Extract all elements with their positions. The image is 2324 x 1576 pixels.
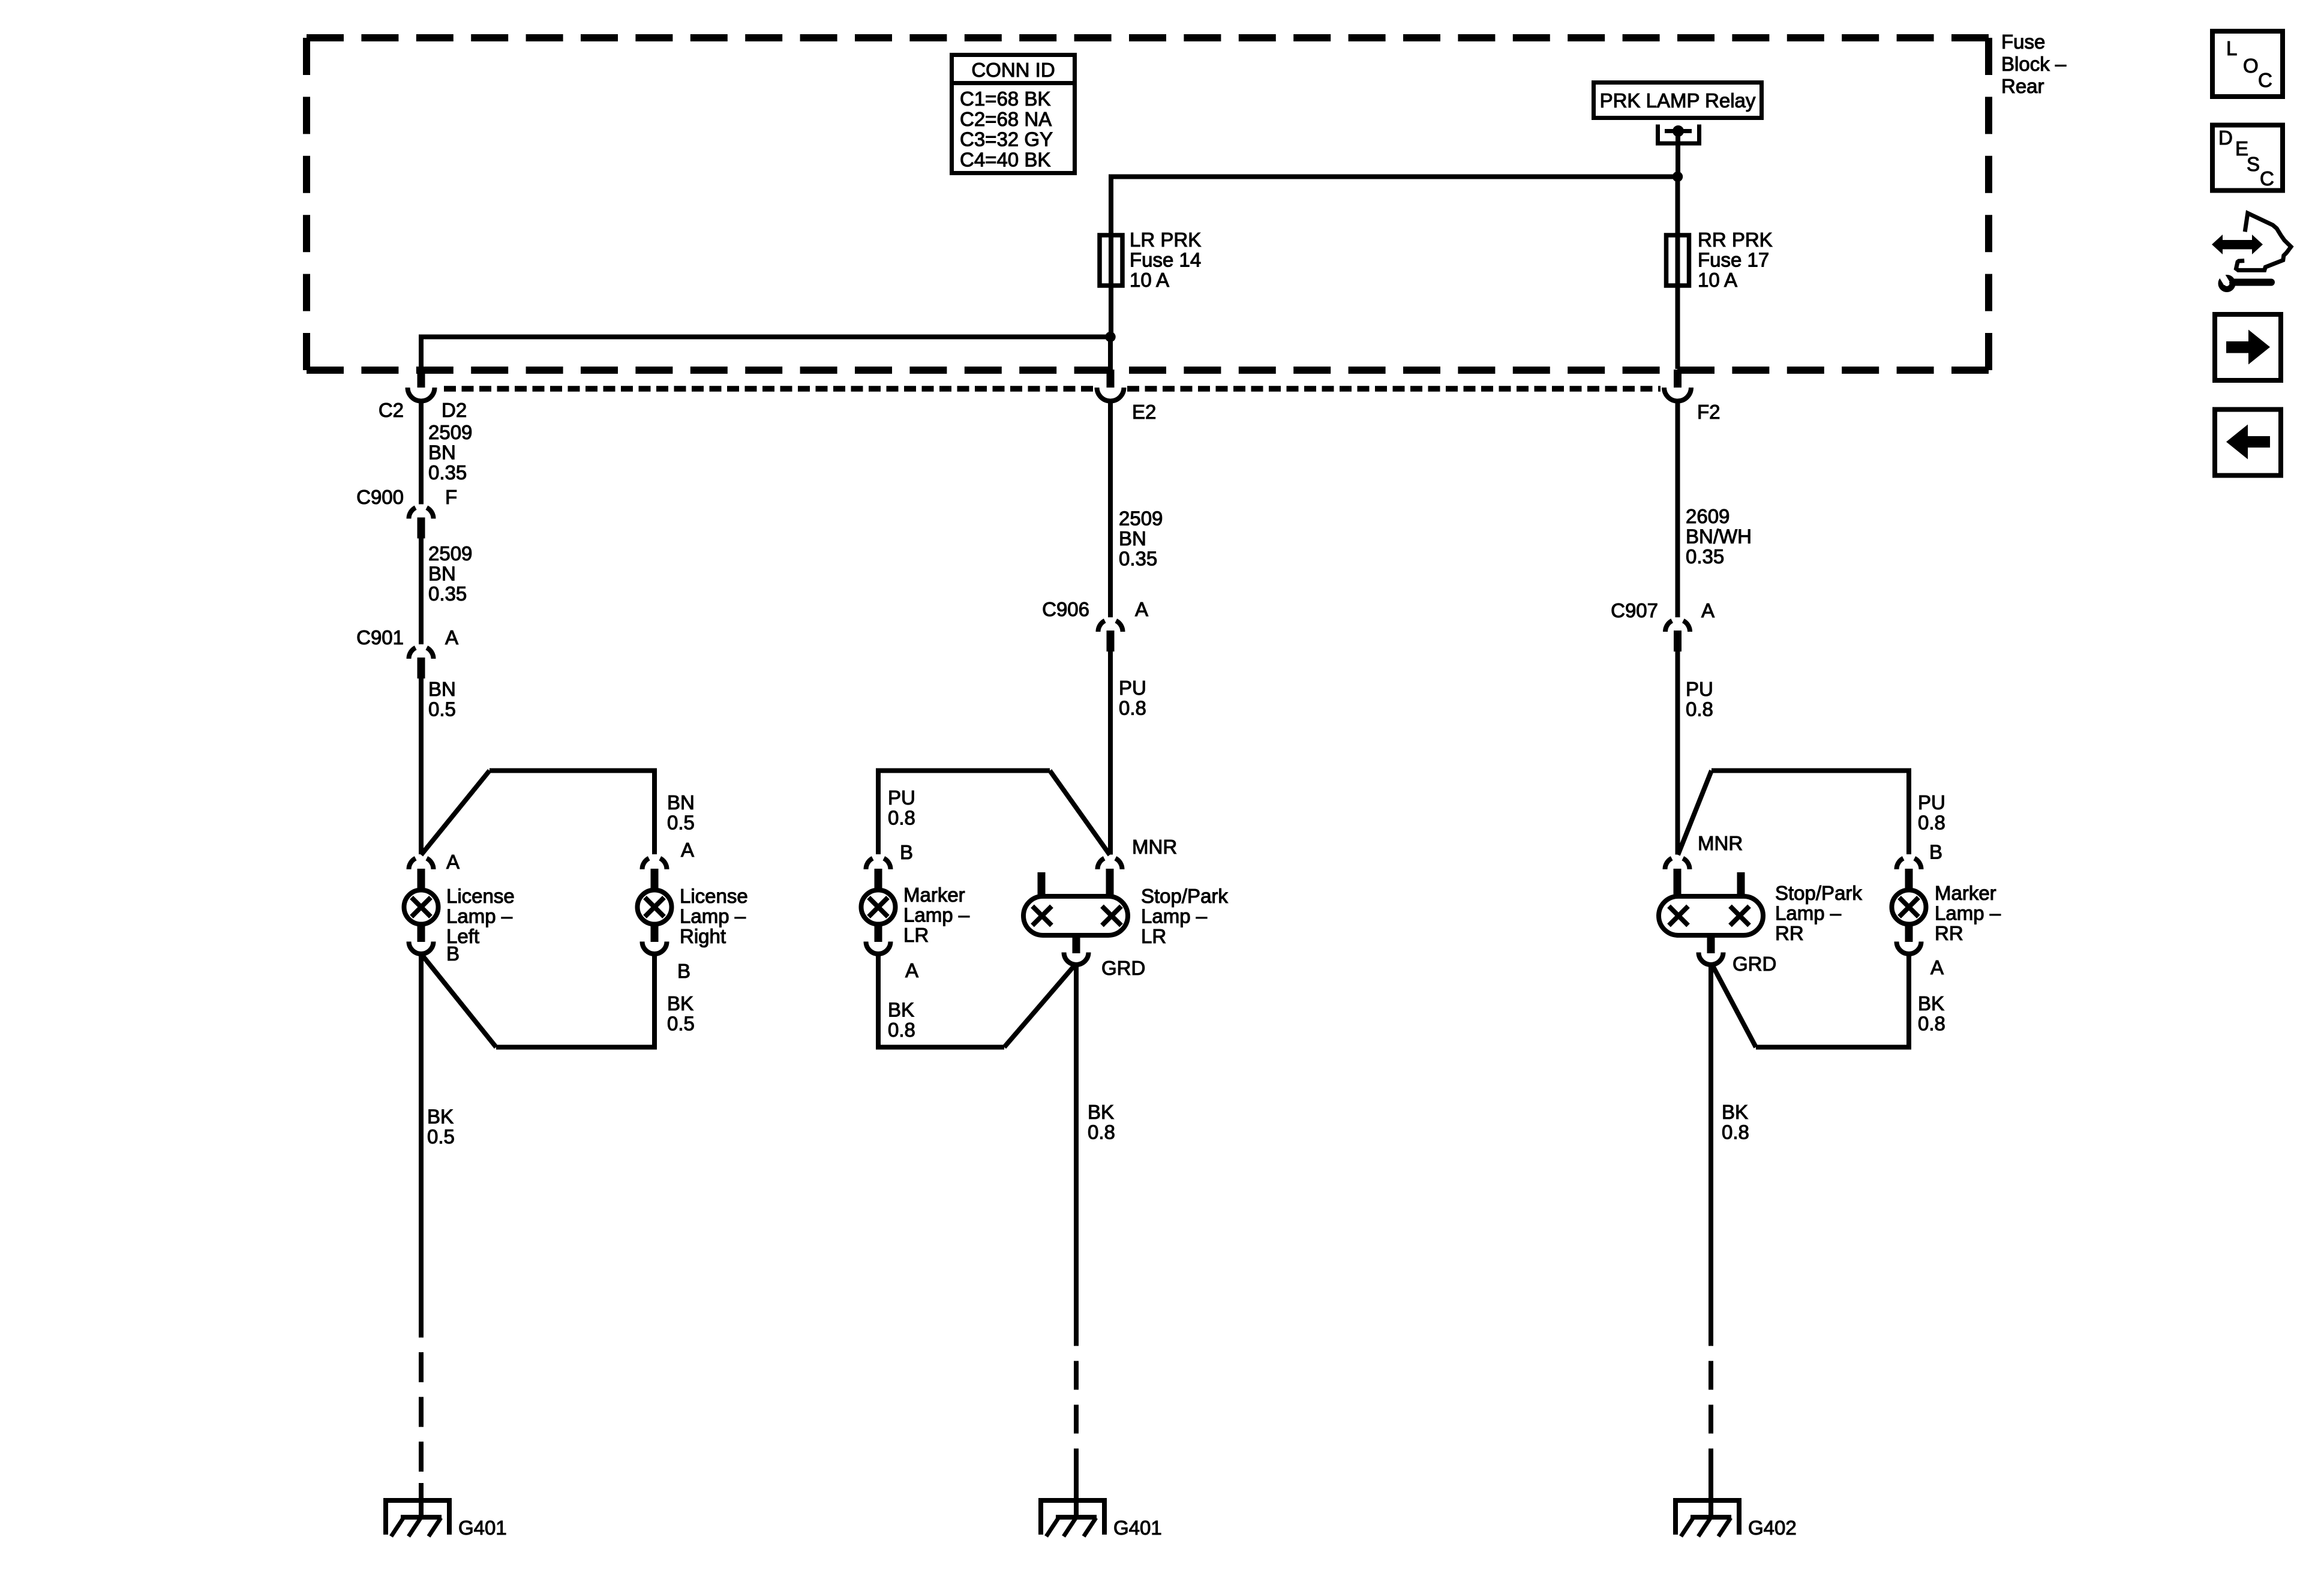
- svg-text:0.5: 0.5: [427, 1125, 455, 1148]
- svg-text:C900: C900: [356, 486, 404, 508]
- svg-text:BN: BN: [428, 678, 456, 700]
- svg-text:Lamp –: Lamp –: [1141, 905, 1208, 927]
- svg-text:0.8: 0.8: [1088, 1121, 1115, 1143]
- svg-text:Stop/Park: Stop/Park: [1141, 885, 1228, 907]
- svg-text:2609: 2609: [1686, 505, 1730, 527]
- svg-text:BN: BN: [667, 791, 695, 813]
- svg-text:A: A: [1930, 956, 1944, 978]
- svg-text:LR: LR: [903, 924, 929, 946]
- svg-text:RR PRK: RR PRK: [1698, 229, 1773, 251]
- svg-text:0.35: 0.35: [428, 461, 467, 484]
- svg-text:Block –: Block –: [2001, 53, 2067, 75]
- svg-text:C2=68 NA: C2=68 NA: [960, 108, 1052, 130]
- svg-text:RR: RR: [1775, 922, 1804, 944]
- svg-text:L: L: [2226, 37, 2237, 59]
- svg-text:PU: PU: [888, 787, 915, 809]
- svg-text:0.8: 0.8: [1918, 1013, 1945, 1035]
- svg-text:0.8: 0.8: [888, 1019, 915, 1041]
- svg-text:BK: BK: [1088, 1101, 1114, 1123]
- svg-text:10 A: 10 A: [1698, 269, 1737, 291]
- svg-text:C906: C906: [1042, 598, 1089, 620]
- svg-text:CONN ID: CONN ID: [971, 59, 1055, 81]
- svg-text:MNR: MNR: [1132, 836, 1177, 858]
- svg-text:C1=68 BK: C1=68 BK: [960, 88, 1050, 110]
- svg-text:C4=40 BK: C4=40 BK: [960, 148, 1050, 170]
- svg-text:BN: BN: [1119, 527, 1146, 550]
- svg-text:S: S: [2247, 153, 2260, 175]
- svg-text:LR PRK: LR PRK: [1130, 229, 1201, 251]
- svg-text:B: B: [1929, 841, 1942, 863]
- svg-text:Marker: Marker: [903, 884, 965, 906]
- svg-text:0.8: 0.8: [1119, 697, 1146, 719]
- svg-text:C2: C2: [379, 399, 404, 421]
- svg-text:Right: Right: [680, 925, 726, 947]
- svg-text:C: C: [2258, 69, 2272, 91]
- svg-text:A: A: [446, 851, 460, 873]
- svg-text:Lamp –: Lamp –: [903, 904, 970, 926]
- svg-text:2509: 2509: [428, 542, 472, 565]
- svg-text:Fuse: Fuse: [2001, 31, 2045, 53]
- svg-text:BK: BK: [667, 992, 693, 1014]
- svg-text:2509: 2509: [1119, 508, 1163, 530]
- svg-text:C901: C901: [356, 626, 404, 649]
- svg-text:B: B: [446, 942, 460, 965]
- svg-text:Lamp –: Lamp –: [680, 905, 746, 927]
- svg-text:BN: BN: [428, 563, 456, 585]
- svg-text:0.8: 0.8: [1686, 698, 1713, 721]
- svg-text:D: D: [2218, 127, 2233, 149]
- svg-text:PU: PU: [1918, 791, 1945, 813]
- svg-text:Lamp –: Lamp –: [1935, 902, 2001, 924]
- svg-text:0.5: 0.5: [428, 698, 456, 721]
- svg-text:0.5: 0.5: [667, 812, 695, 834]
- svg-text:PRK LAMP Relay: PRK LAMP Relay: [1600, 89, 1756, 112]
- svg-text:A: A: [445, 626, 458, 649]
- svg-text:F2: F2: [1697, 401, 1721, 423]
- svg-text:Fuse 17: Fuse 17: [1698, 249, 1769, 271]
- svg-text:A: A: [1701, 599, 1715, 622]
- svg-text:Stop/Park: Stop/Park: [1775, 882, 1862, 904]
- svg-text:BK: BK: [1918, 992, 1944, 1014]
- svg-text:LR: LR: [1141, 925, 1166, 947]
- svg-text:E2: E2: [1132, 401, 1156, 423]
- svg-text:2509: 2509: [428, 421, 472, 443]
- svg-text:0.35: 0.35: [1686, 545, 1724, 568]
- svg-text:PU: PU: [1119, 677, 1146, 699]
- svg-text:0.35: 0.35: [428, 583, 467, 605]
- svg-text:BN/WH: BN/WH: [1686, 526, 1752, 548]
- svg-text:A: A: [681, 839, 694, 861]
- svg-text:C: C: [2260, 167, 2274, 190]
- svg-text:BK: BK: [427, 1106, 454, 1128]
- svg-text:G401: G401: [1113, 1517, 1162, 1539]
- svg-text:0.5: 0.5: [667, 1013, 695, 1035]
- svg-text:RR: RR: [1935, 922, 1963, 944]
- svg-text:A: A: [1135, 598, 1148, 620]
- svg-text:License: License: [446, 885, 515, 907]
- svg-text:10 A: 10 A: [1130, 269, 1169, 291]
- svg-text:MNR: MNR: [1698, 832, 1743, 854]
- svg-text:G402: G402: [1748, 1517, 1797, 1539]
- svg-text:GRD: GRD: [1101, 957, 1145, 979]
- svg-text:B: B: [900, 841, 913, 863]
- svg-text:C907: C907: [1611, 599, 1658, 622]
- svg-text:G401: G401: [458, 1517, 507, 1539]
- svg-text:0.8: 0.8: [1722, 1121, 1749, 1143]
- svg-text:Lamp –: Lamp –: [1775, 902, 1842, 924]
- svg-text:Marker: Marker: [1935, 882, 1996, 904]
- svg-text:GRD: GRD: [1733, 953, 1776, 975]
- svg-text:Rear: Rear: [2001, 75, 2044, 97]
- svg-text:BK: BK: [888, 999, 914, 1021]
- svg-text:PU: PU: [1686, 678, 1713, 700]
- svg-text:C3=32 GY: C3=32 GY: [960, 128, 1053, 151]
- svg-text:0.8: 0.8: [888, 807, 915, 829]
- svg-text:License: License: [680, 885, 748, 907]
- svg-text:0.8: 0.8: [1918, 812, 1945, 834]
- svg-text:0.35: 0.35: [1119, 548, 1157, 570]
- svg-text:O: O: [2243, 55, 2259, 77]
- svg-text:D2: D2: [442, 399, 467, 421]
- svg-text:F: F: [445, 486, 457, 508]
- svg-text:Lamp –: Lamp –: [446, 905, 513, 927]
- svg-text:BK: BK: [1722, 1101, 1748, 1123]
- svg-text:A: A: [905, 959, 918, 981]
- svg-text:B: B: [677, 960, 690, 982]
- svg-text:Fuse 14: Fuse 14: [1130, 249, 1201, 271]
- svg-text:BN: BN: [428, 442, 456, 464]
